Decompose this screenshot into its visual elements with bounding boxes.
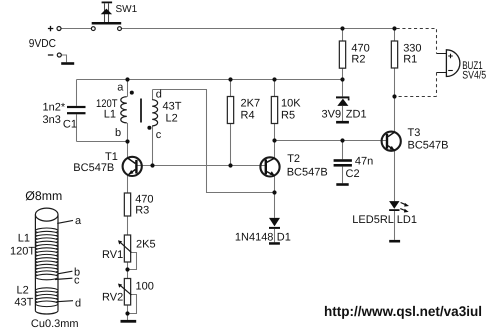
svg-text:L1: L1 (18, 233, 30, 245)
svg-text:d: d (75, 298, 81, 310)
svg-text:BC547B: BC547B (287, 167, 328, 179)
svg-text:T2: T2 (287, 153, 300, 165)
svg-text:2K5: 2K5 (136, 239, 156, 251)
svg-text:T3: T3 (408, 127, 421, 139)
svg-text:R5: R5 (281, 110, 295, 122)
svg-text:R4: R4 (241, 110, 255, 122)
svg-text:L1: L1 (104, 109, 116, 121)
svg-text:C2: C2 (346, 168, 360, 180)
svg-text:120T: 120T (10, 246, 35, 258)
svg-text:BC547B: BC547B (73, 162, 114, 174)
svg-text:c: c (156, 129, 162, 141)
svg-text:RV1: RV1 (102, 249, 123, 261)
svg-text:3V9: 3V9 (322, 109, 342, 121)
svg-text:a: a (117, 82, 124, 94)
svg-text:LED5RL: LED5RL (352, 214, 394, 226)
svg-text:Cu0.3mm: Cu0.3mm (31, 318, 79, 328)
svg-text:Ø8mm: Ø8mm (25, 189, 62, 203)
svg-text:43T: 43T (163, 101, 182, 113)
svg-text:L2: L2 (17, 285, 29, 297)
svg-text:3n3: 3n3 (43, 114, 61, 126)
svg-text:D1: D1 (277, 232, 291, 244)
svg-text:R3: R3 (135, 205, 149, 217)
svg-text:43T: 43T (14, 297, 33, 309)
svg-text:1N4148: 1N4148 (235, 232, 274, 244)
svg-text:SW1: SW1 (116, 4, 138, 15)
svg-text:R1: R1 (403, 54, 417, 66)
svg-text:100: 100 (136, 281, 154, 293)
svg-text:RV2: RV2 (102, 292, 123, 304)
svg-text:BC547B: BC547B (408, 140, 449, 152)
svg-text:ZD1: ZD1 (346, 109, 367, 121)
svg-text:c: c (74, 275, 80, 287)
svg-text:10K: 10K (281, 98, 301, 110)
svg-text:47n: 47n (355, 156, 373, 168)
svg-text:d: d (156, 89, 162, 101)
svg-text:SV4/5: SV4/5 (462, 70, 486, 82)
svg-text:a: a (75, 215, 82, 227)
svg-text:2K7: 2K7 (241, 98, 261, 110)
svg-text:http://www.qsl.net/va3iul: http://www.qsl.net/va3iul (324, 303, 482, 319)
svg-text:R2: R2 (351, 54, 365, 66)
svg-text:C1: C1 (63, 119, 77, 131)
svg-text:9VDC: 9VDC (29, 38, 56, 50)
svg-text:1n2*: 1n2* (43, 102, 66, 114)
svg-text:b: b (115, 127, 121, 139)
svg-text:L2: L2 (166, 113, 178, 125)
svg-text:LD1: LD1 (397, 214, 417, 226)
